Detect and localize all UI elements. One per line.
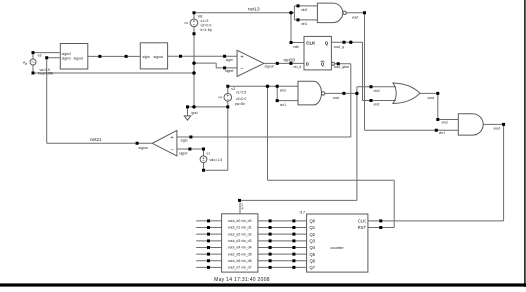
svg-text:vin2: vin2	[374, 89, 380, 93]
svg-text:RST: RST	[358, 225, 367, 230]
svg-text:I17: I17	[300, 210, 306, 215]
svg-text:vout_d6 vin_d6: vout_d6 vin_d6	[228, 259, 252, 263]
svg-text:Q1: Q1	[310, 225, 316, 230]
svg-text:vout_d1 vin_d1: vout_d1 vin_d1	[228, 226, 252, 230]
svg-text:Q: Q	[325, 40, 329, 45]
svg-text:vin_d: vin_d	[293, 65, 301, 69]
svg-text:vout_d2 vin_d2: vout_d2 vin_d2	[228, 232, 252, 236]
svg-text:sigin: sigin	[181, 139, 188, 143]
svg-text:vin2: vin2	[280, 88, 286, 92]
svg-text:v2=0 0: v2=0 0	[201, 24, 212, 28]
svg-text:sigref: sigref	[225, 69, 233, 73]
svg-text:sigout: sigout	[139, 146, 148, 150]
svg-text:−: −	[170, 147, 173, 153]
svg-text:sigout: sigout	[265, 65, 274, 69]
svg-text:v2=0 0: v2=0 0	[236, 97, 246, 101]
svg-text:vin1: vin1	[301, 22, 307, 26]
svg-text:v1=3: v1=3	[201, 19, 209, 23]
svg-text:V8: V8	[198, 13, 204, 18]
svg-text:vin2: vin2	[442, 121, 448, 125]
svg-text:vout: vout	[352, 15, 358, 19]
svg-text:sigin: sigin	[143, 55, 150, 59]
svg-text:vout: vout	[494, 127, 500, 131]
svg-text:tr=1.6p: tr=1.6p	[201, 28, 212, 32]
svg-text:net21: net21	[90, 137, 102, 142]
svg-text:sigref: sigref	[179, 151, 187, 155]
svg-text:Q4: Q4	[310, 245, 316, 250]
svg-text:−: −	[240, 66, 243, 72]
svg-text:Q3: Q3	[310, 239, 316, 244]
svg-text:PA: PA	[219, 96, 223, 100]
svg-text:vout: vout	[428, 96, 434, 100]
svg-text:pw=5n: pw=5n	[235, 102, 245, 106]
svg-text:Q5: Q5	[310, 252, 316, 257]
svg-text:vin2: vin2	[301, 8, 307, 12]
svg-text:Q2: Q2	[310, 232, 316, 237]
svg-text:gnd: gnd	[192, 111, 198, 115]
svg-text:+: +	[240, 55, 243, 61]
svg-text:Q0: Q0	[310, 219, 316, 224]
svg-text:v2: v2	[231, 87, 235, 91]
svg-text:sigin1: sigin1	[62, 56, 71, 60]
svg-text:sigout: sigout	[74, 56, 83, 60]
svg-text:sigout: sigout	[154, 55, 163, 59]
svg-text:vin1: vin1	[439, 131, 445, 135]
svg-text:PA: PA	[185, 21, 189, 25]
svg-text:net13: net13	[248, 7, 260, 12]
svg-text:vclk: vclk	[241, 203, 245, 210]
svg-text:vout_d3 vin_d3: vout_d3 vin_d3	[228, 239, 252, 243]
svg-text:vdc=1.5: vdc=1.5	[210, 158, 223, 162]
svg-text:vin1: vin1	[374, 103, 380, 107]
svg-text:CLK: CLK	[358, 219, 366, 224]
svg-text:v3: v3	[38, 53, 42, 57]
svg-text:+: +	[170, 135, 173, 141]
svg-text:vout: vout	[333, 96, 339, 100]
svg-text:vin1: vin1	[280, 103, 286, 107]
svg-text:counter: counter	[330, 245, 344, 250]
svg-text:May 14 17:31:40 2008: May 14 17:31:40 2008	[214, 277, 270, 283]
svg-text:vout_d4 vin_d4: vout_d4 vin_d4	[228, 246, 252, 250]
svg-text:Q6: Q6	[310, 258, 316, 263]
svg-text:vout_qbar: vout_qbar	[334, 65, 350, 69]
svg-text:Q7: Q7	[310, 265, 316, 270]
svg-text:freq=100k: freq=100k	[38, 72, 53, 76]
svg-text:sigin: sigin	[226, 58, 233, 62]
svg-text:Q: Q	[321, 62, 325, 67]
svg-text:v1: v1	[206, 151, 210, 155]
svg-text:vout_d7 vin_d7: vout_d7 vin_d7	[228, 266, 252, 270]
svg-text:∿: ∿	[23, 61, 28, 67]
svg-text:vout_d5 vin_d5: vout_d5 vin_d5	[228, 252, 252, 256]
svg-text:CLK: CLK	[306, 40, 316, 45]
svg-text:v1=2.5: v1=2.5	[236, 91, 246, 95]
svg-text:net20: net20	[284, 58, 296, 63]
svg-text:vclk: vclk	[293, 45, 299, 49]
svg-text:D: D	[306, 62, 309, 67]
svg-text:vout_q: vout_q	[334, 45, 344, 49]
svg-text:vout_d0 vin_d0: vout_d0 vin_d0	[228, 219, 252, 223]
svg-text:sigin2: sigin2	[62, 52, 71, 56]
